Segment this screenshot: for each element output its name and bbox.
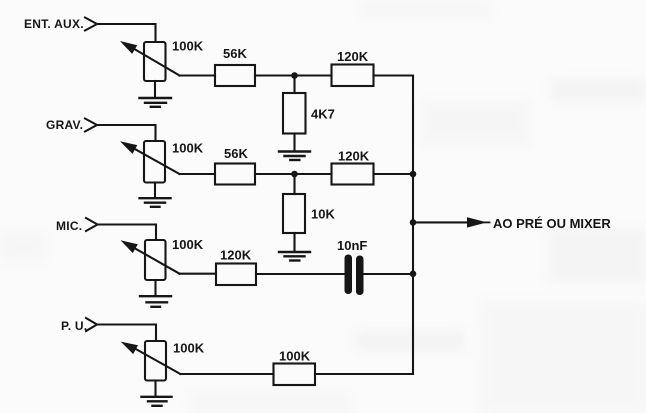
- resistor 120K row3: [216, 264, 256, 286]
- wire 100K row4 to bus: [315, 373, 413, 375]
- ground 10K: [279, 252, 310, 261]
- svg-text:100K: 100K: [173, 340, 205, 355]
- wire wiper row4: [180, 373, 273, 375]
- wire wiper row3: [180, 273, 217, 275]
- wire pot4 to ground: [154, 381, 156, 397]
- svg-text:100K: 100K: [172, 237, 204, 252]
- potentiometer 100K row1: [120, 41, 180, 81]
- svg-text:100K: 100K: [172, 38, 204, 53]
- wire output arrow: [413, 217, 490, 227]
- potentiometer 100K row3: [121, 240, 180, 280]
- input connector GRAV.: [85, 119, 97, 132]
- svg-text:10K: 10K: [311, 206, 335, 221]
- wire 120K row1 to bus: [374, 74, 414, 76]
- input connector MIC.: [86, 218, 98, 231]
- resistor 56K row1: [215, 65, 255, 86]
- node B junction: [291, 171, 298, 178]
- ground pot3: [140, 296, 171, 307]
- input connector ENT. AUX.: [85, 18, 97, 31]
- svg-text:MIC.: MIC.: [56, 219, 82, 233]
- svg-text:4K7: 4K7: [311, 106, 335, 121]
- wire input row4: [97, 325, 156, 342]
- svg-text:56K: 56K: [224, 146, 248, 161]
- wire wiper row2: [180, 173, 216, 175]
- wire capacitor to bus: [364, 273, 414, 275]
- node bus row2 junction: [410, 171, 417, 178]
- svg-text:P. U.: P. U.: [61, 319, 87, 333]
- wire input row2: [97, 125, 156, 141]
- node bus row3 junction: [410, 271, 417, 278]
- ground pot1: [140, 98, 172, 107]
- ground pot2: [140, 198, 171, 207]
- wire 4K7 to ground: [293, 134, 295, 151]
- svg-text:100K: 100K: [172, 140, 204, 155]
- wire pot1 to ground: [154, 81, 156, 97]
- wire 56K to node B: [255, 173, 332, 175]
- svg-text:56K: 56K: [223, 46, 247, 61]
- wire 120K row2 to bus: [374, 173, 414, 175]
- wire 10K to ground: [293, 233, 295, 251]
- resistor 10K: [283, 194, 305, 233]
- input connector P.U.: [86, 318, 97, 331]
- node A junction: [291, 72, 298, 79]
- capacitor 10nF: [345, 255, 364, 296]
- wire input row3: [98, 225, 157, 241]
- svg-text:AO PRÉ OU MIXER: AO PRÉ OU MIXER: [493, 216, 611, 231]
- wire node B to 10K: [293, 174, 295, 194]
- wire 120K row3 to capacitor: [256, 273, 345, 275]
- svg-text:ENT. AUX.: ENT. AUX.: [24, 17, 84, 31]
- wire bus vertical: [412, 76, 414, 375]
- potentiometer 100K row2: [120, 141, 180, 183]
- wire pot2 to ground: [154, 183, 156, 198]
- ground pot4: [142, 397, 172, 406]
- ground 4K7: [279, 152, 310, 161]
- wire pot3 to ground: [154, 280, 156, 296]
- potentiometer 100K row4: [121, 341, 181, 381]
- svg-text:120K: 120K: [220, 248, 252, 263]
- svg-text:10nF: 10nF: [337, 238, 367, 253]
- resistor 120K row1: [332, 65, 374, 87]
- svg-text:120K: 120K: [338, 148, 370, 163]
- svg-text:GRAV.: GRAV.: [46, 118, 83, 132]
- svg-text:120K: 120K: [337, 49, 369, 64]
- node output junction: [410, 219, 417, 226]
- svg-text:100K: 100K: [279, 348, 311, 363]
- resistor 56K row2: [215, 164, 255, 185]
- resistor 100K row4: [274, 364, 316, 386]
- resistor 120K row2: [332, 164, 374, 185]
- resistor 4K7: [283, 93, 306, 134]
- wire input row1: [97, 24, 156, 42]
- wire 56K to node A: [255, 74, 332, 76]
- wire node A to 4K7: [293, 76, 295, 94]
- wire wiper row1: [180, 74, 216, 76]
